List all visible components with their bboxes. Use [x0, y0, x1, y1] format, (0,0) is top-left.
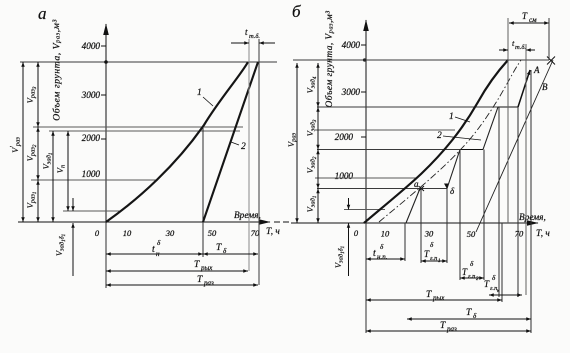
svg-text:Т: Т: [194, 260, 200, 270]
svg-text:г.п: г.п: [430, 255, 437, 262]
svg-text:Vзад1: Vзад1: [305, 196, 318, 213]
curve 1 panel b: [364, 60, 508, 223]
svg-text:Время,: Время,: [519, 213, 546, 223]
svg-text:Т: Т: [522, 11, 528, 21]
svg-text:н: н: [156, 250, 160, 258]
point a marker: [419, 186, 425, 191]
svg-text:к: к: [497, 289, 500, 294]
level line step3 b: [317, 106, 518, 108]
ext lines below axis b: [365, 223, 367, 333]
svg-text:δ: δ: [157, 239, 161, 247]
chained dims Vzad4..1 b: [317, 63, 319, 107]
node dot axis-top panel a: [104, 60, 108, 64]
riser R2 b: [483, 107, 498, 150]
svg-text:Т: Т: [426, 290, 432, 300]
svg-text:2000: 2000: [335, 132, 354, 142]
svg-text:раз: раз: [446, 325, 457, 333]
svg-text:t: t: [373, 248, 376, 259]
svg-text:δ: δ: [492, 274, 496, 282]
dim Vzad1 panel a: [52, 131, 54, 222]
dim t_n.p b: [366, 258, 405, 260]
svg-text:Время,: Время,: [234, 211, 261, 221]
svg-text:10: 10: [381, 229, 390, 239]
ext line 549 b: [548, 18, 550, 60]
dash-dot average curve b: [379, 60, 521, 222]
svg-text:Vраз3: Vраз3: [25, 86, 38, 103]
svg-text:δ: δ: [470, 260, 474, 268]
curve 1 panel a: [106, 62, 248, 222]
dim T_ryh b: [366, 299, 502, 301]
cross at end of line 2: [547, 57, 555, 65]
svg-text:50: 50: [467, 229, 476, 239]
svg-text:2: 2: [437, 131, 442, 141]
level line 2200 panel a: [49, 130, 240, 132]
svg-text:0: 0: [354, 228, 359, 238]
svg-text:30: 30: [424, 229, 434, 239]
level line 250 panel a: [63, 210, 121, 212]
svg-text:Vзад1δ1: Vзад1δ1: [54, 234, 67, 256]
svg-text:30: 30: [165, 228, 175, 238]
svg-text:Vзад1: Vзад1: [41, 153, 54, 170]
dim T_sm b: [509, 22, 549, 24]
svg-text:Объем грунта, Vраз,м³: Объем грунта, Vраз,м³: [324, 10, 335, 107]
svg-text:Т: Т: [197, 275, 203, 285]
y-axis panel b: [365, 20, 367, 223]
svg-text:Т: Т: [216, 243, 222, 253]
line 2 panel a: [203, 62, 258, 222]
svg-text:г.п: г.п: [468, 273, 475, 280]
level line top 3700 b: [363, 58, 366, 61]
svg-text:рых: рых: [432, 294, 445, 302]
svg-text:t: t: [245, 27, 248, 37]
svg-text:Vп: Vп: [55, 165, 67, 173]
dim T_raz panel a: [106, 284, 258, 286]
dim Vzad1d1 b: [348, 198, 350, 210]
svg-text:Vзад3: Vзад3: [305, 119, 318, 136]
dim t_t.d panel a: [231, 42, 249, 44]
ext line x=106 below axis: [105, 222, 107, 288]
dim T_d panel a: [203, 253, 258, 255]
svg-text:Vзад1δ1: Vзад1δ1: [333, 246, 346, 268]
svg-text:2000: 2000: [82, 133, 101, 143]
dim T_raz b: [366, 330, 531, 332]
svg-text:а: а: [38, 4, 47, 23]
svg-text:3000: 3000: [341, 87, 361, 97]
svg-text:А: А: [533, 65, 540, 75]
svg-text:б: б: [292, 2, 301, 21]
svg-text:Т, ч: Т, ч: [536, 229, 550, 239]
svg-text:4000: 4000: [342, 40, 361, 50]
svg-text:Объем грунта, Vраз,м³: Объем грунта, Vраз,м³: [51, 19, 62, 121]
svg-text:см: см: [529, 16, 537, 24]
x-axis panel a: [18, 221, 270, 223]
svg-text:50: 50: [208, 228, 217, 238]
ext line 508 b: [507, 18, 509, 223]
svg-text:δ: δ: [450, 186, 455, 196]
svg-text:Vраз2: Vраз2: [25, 144, 38, 161]
level line 2300 panel a: [33, 126, 243, 128]
dim T_ryh panel a: [106, 270, 248, 272]
dim Vzad1d1 panel a: [72, 198, 74, 211]
svg-text:10: 10: [123, 228, 132, 238]
svg-text:4000: 4000: [82, 41, 101, 51]
svg-text:1: 1: [449, 112, 454, 122]
svg-text:δ: δ: [380, 243, 384, 251]
svg-text:3000: 3000: [81, 90, 101, 100]
svg-text:0: 0: [95, 228, 100, 238]
chained dim Vraz3 Vraz2 Vraz1 panel a: [37, 62, 39, 127]
drop line from curve1 x 2300: [202, 128, 204, 222]
dim T_g.pk b: [489, 294, 499, 296]
svg-text:V′раз: V′раз: [9, 137, 22, 153]
svg-text:т.δ.: т.δ.: [249, 33, 260, 40]
svg-text:1000: 1000: [82, 169, 101, 179]
svg-text:раз: раз: [203, 279, 214, 287]
svg-text:Т: Т: [466, 308, 472, 318]
dim t_t.d b: [499, 49, 508, 51]
level line 1000 panel a: [31, 179, 158, 181]
riser R1 b: [447, 150, 460, 189]
svg-text:Т, ч: Т, ч: [266, 227, 280, 237]
svg-text:Т: Т: [440, 321, 446, 331]
level line 250 b: [344, 209, 385, 211]
dim T_d b: [407, 318, 531, 320]
t_t.d extension lines panel a: [248, 39, 250, 271]
level line 3700 panel a: [20, 61, 277, 63]
svg-text:1: 1: [197, 88, 202, 98]
level line 1000 b: [315, 177, 417, 179]
ext line x=203 below axis: [202, 222, 204, 257]
svg-text:Vзад2: Vзад2: [305, 156, 318, 173]
ext line 526 b: [525, 44, 527, 295]
svg-text:t: t: [152, 244, 155, 255]
dim T_g.p1 b: [421, 260, 447, 262]
svg-text:т.δ.: т.δ.: [515, 44, 526, 51]
dim T_g.p2 b: [460, 277, 484, 279]
dim Vraz b: [296, 63, 298, 223]
svg-text:1000: 1000: [335, 171, 354, 181]
svg-text:Vраз: Vраз: [286, 132, 298, 147]
level line step2 b: [317, 149, 483, 151]
svg-text:1: 1: [438, 259, 441, 264]
x-axis panel b: [291, 222, 538, 224]
svg-text:рых: рых: [200, 264, 213, 272]
y-axis panel a: [105, 24, 107, 222]
svg-text:а: а: [414, 179, 419, 189]
level line step1 b: [421, 188, 447, 190]
svg-text:70: 70: [515, 229, 524, 239]
riser R0 b: [406, 189, 420, 224]
svg-text:2: 2: [241, 142, 246, 152]
dim Vp panel a: [67, 131, 69, 211]
svg-text:Vраз1: Vраз1: [25, 192, 38, 209]
svg-text:δ: δ: [430, 241, 434, 249]
dim V'raz panel a: [22, 62, 24, 222]
svg-text:Vзад4: Vзад4: [305, 76, 318, 93]
svg-text:н.п.: н.п.: [377, 253, 388, 261]
point d marker: [444, 184, 449, 190]
thin line 2 panel b: [476, 60, 553, 232]
dim t_n panel a: [106, 253, 203, 255]
level line 2200 b: [315, 129, 455, 131]
riser R3 b to point A: [518, 70, 530, 107]
